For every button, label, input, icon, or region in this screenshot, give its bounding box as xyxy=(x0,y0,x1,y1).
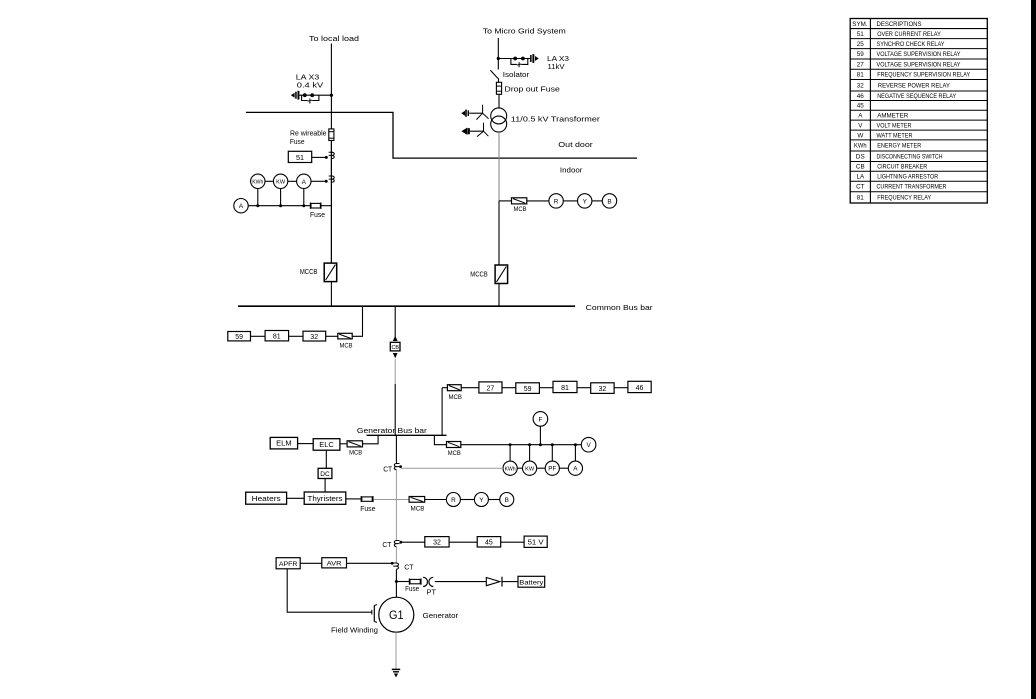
energy meter KWh (local) xyxy=(251,174,265,188)
svg-text:DC: DC xyxy=(320,471,330,478)
svg-text:Out door: Out door xyxy=(558,140,593,149)
svg-text:CT: CT xyxy=(382,542,392,549)
lightning arrestor LA2 (11 kV side) xyxy=(498,54,538,67)
svg-text:51 V: 51 V xyxy=(528,539,544,546)
svg-text:11/0.5 kV Transformer: 11/0.5 kV Transformer xyxy=(511,115,601,124)
legend row W watt meter xyxy=(857,132,913,139)
wire: APFR to field winding xyxy=(287,569,372,612)
wire: ELC to DC xyxy=(325,450,327,468)
svg-text:KWh: KWh xyxy=(252,180,263,186)
svg-text:F: F xyxy=(538,416,542,423)
fuse F2 (meter circuit) xyxy=(310,203,321,209)
voltmeter V xyxy=(581,437,596,452)
svg-text:51: 51 xyxy=(296,153,304,162)
svg-text:45: 45 xyxy=(857,103,865,110)
svg-text:32: 32 xyxy=(599,386,607,393)
node: CT1 lead dot xyxy=(325,156,328,159)
outdoor/indoor boundary line xyxy=(246,112,637,158)
svg-text:Heaters: Heaters xyxy=(252,496,282,503)
legend row CB circuit breaker xyxy=(856,164,928,171)
APFR box xyxy=(276,558,300,569)
wire: DC to Thyristers xyxy=(324,479,326,493)
node dot (KW tap) xyxy=(528,443,531,446)
wire: feeder between fuse and MCCB xyxy=(330,141,332,264)
legend row 25 synchro check relay xyxy=(857,41,945,48)
svg-text:NEGATIVE SEQUENCE RELAY: NEGATIVE SEQUENCE RELAY xyxy=(877,93,957,100)
wire: CT4 to relay 32 xyxy=(401,541,425,543)
MCB (metering) xyxy=(447,442,461,448)
svg-text:KWh: KWh xyxy=(505,466,516,472)
node: CT4 lead dot xyxy=(399,541,402,544)
lightning arrestor LA1 (0.4 kV side) xyxy=(291,91,332,104)
winding earth symbol (secondary) xyxy=(461,123,488,137)
svg-text:32: 32 xyxy=(857,83,865,90)
svg-text:CIRCUIT BREAKER: CIRCUIT BREAKER xyxy=(877,164,927,171)
svg-text:To local load: To local load xyxy=(309,34,359,43)
svg-text:Common Bus bar: Common Bus bar xyxy=(586,303,654,312)
svg-text:MCB: MCB xyxy=(448,394,462,401)
relay box 32 (gen row) xyxy=(591,383,614,394)
legend row 27 voltage supervision relay xyxy=(857,61,961,68)
svg-text:MCB: MCB xyxy=(448,450,462,457)
wire: CT4 to CT5 (gray) xyxy=(395,547,397,563)
ammeter A (local top) xyxy=(297,174,311,188)
MCCB (local feeder) xyxy=(324,263,337,282)
svg-text:45: 45 xyxy=(485,540,493,547)
wire: relay 32 to 45 xyxy=(449,541,477,543)
wire: KW to PF xyxy=(537,467,546,469)
wire: PF riser xyxy=(551,445,553,461)
wire: PF to A xyxy=(559,467,568,469)
node dot (PF tap) xyxy=(551,443,554,446)
common bus bar xyxy=(238,305,575,307)
wire: R to Y (field) xyxy=(460,499,474,501)
legend row A ammeter xyxy=(858,112,908,119)
Battery box xyxy=(518,576,545,587)
legend table frame xyxy=(850,19,987,204)
svg-text:81: 81 xyxy=(857,72,865,79)
svg-text:32: 32 xyxy=(433,540,441,547)
wire: fuse F3 to MCB (gray) xyxy=(374,499,410,501)
svg-text:PF: PF xyxy=(548,467,556,473)
wire: metering line to V xyxy=(461,444,582,446)
svg-text:Y: Y xyxy=(583,198,588,205)
wire: diode to battery xyxy=(502,581,518,583)
svg-text:KW: KW xyxy=(276,180,286,186)
PT coupling xyxy=(423,577,433,586)
svg-text:51: 51 xyxy=(857,31,865,38)
wire: KWh riser xyxy=(509,445,511,461)
wire: relay 81 to 32 xyxy=(577,387,591,389)
svg-text:R: R xyxy=(554,198,559,205)
relay box 81 (gen row) xyxy=(553,381,577,392)
svg-text:APFR: APFR xyxy=(279,561,298,568)
svg-text:Y: Y xyxy=(479,497,484,504)
svg-text:CT: CT xyxy=(404,564,414,571)
relay box 59 (bus row) xyxy=(228,332,251,341)
wire: lower meter row xyxy=(248,205,310,207)
svg-text:MCB: MCB xyxy=(411,505,426,512)
legend row 81 frequency relay xyxy=(857,195,932,202)
legend row 46 negative sequence relay xyxy=(857,93,957,100)
wattmeter KW (generator) xyxy=(523,461,537,475)
wire: fuse F2 to feeder xyxy=(321,205,332,207)
MCCB (micro grid feeder) xyxy=(495,265,508,284)
wire: CB to generator bus (upper gray) xyxy=(394,359,396,384)
node: LA1 junction on feeder xyxy=(330,94,333,97)
svg-text:MCCB: MCCB xyxy=(470,271,488,278)
wire: Heaters to Thyristers xyxy=(287,497,305,499)
svg-text:FREQUENCY SUPERVISION RELAY: FREQUENCY SUPERVISION RELAY xyxy=(877,72,971,79)
svg-text:CURRENT TRANSFORMER: CURRENT TRANSFORMER xyxy=(877,184,947,191)
svg-text:MCB: MCB xyxy=(514,206,528,213)
relay box 51 xyxy=(288,151,311,162)
svg-text:Field Winding: Field Winding xyxy=(331,625,378,634)
svg-text:DISCONNECTING SWITCH: DISCONNECTING SWITCH xyxy=(877,154,943,161)
legend row CT current transformer xyxy=(856,184,947,191)
svg-text:59: 59 xyxy=(857,51,865,58)
wire: MCB to relay 32 xyxy=(326,335,338,337)
relay box 46 xyxy=(628,381,651,392)
svg-text:To Micro Grid System: To Micro Grid System xyxy=(483,27,566,36)
legend row 51 over current relay xyxy=(857,31,942,38)
legend row KWh energy meter xyxy=(854,143,922,150)
rewireable fuse F1 xyxy=(329,129,334,141)
svg-text:W: W xyxy=(857,132,863,139)
wire: CT3 to CT4 (gray) xyxy=(395,470,397,541)
svg-text:G1: G1 xyxy=(389,610,404,622)
current transformer CT2 (meters) xyxy=(329,176,334,182)
svg-text:OVER CURRENT RELAY: OVER CURRENT RELAY xyxy=(877,31,941,38)
svg-text:Fuse: Fuse xyxy=(290,137,305,146)
wire: ELC to ELM xyxy=(298,443,314,445)
winding earth symbol (primary) xyxy=(461,105,488,120)
wire: relay 81 to 59 xyxy=(251,335,266,337)
wire: lamp Y to B xyxy=(592,200,602,202)
fuse F3 (field circuit) xyxy=(361,496,373,502)
wire: drop out fuse to transformer xyxy=(498,94,500,108)
svg-text:V: V xyxy=(586,442,591,449)
svg-text:59: 59 xyxy=(235,334,243,341)
Thyristers box xyxy=(304,492,346,504)
ELM box xyxy=(270,437,297,449)
svg-text:CB: CB xyxy=(391,345,399,351)
wire: bus drop to relay MCB row xyxy=(352,306,362,336)
legend row LA lightning arrestor xyxy=(856,174,938,181)
indicator lamp Y xyxy=(578,194,592,208)
wire: drop to MCB (27 row) xyxy=(442,387,447,389)
svg-text:B: B xyxy=(505,497,509,504)
wire: CT3 to KWh meters (gray) xyxy=(401,467,503,469)
svg-text:SYNCHRO CHECK RELAY: SYNCHRO CHECK RELAY xyxy=(877,41,946,48)
wire: KWh drop xyxy=(257,189,259,206)
MCB (relay row 1) xyxy=(338,333,352,339)
current transformer CT5 (AVR) xyxy=(393,563,398,569)
indicator lamp R xyxy=(549,194,563,208)
indicator lamp R (field) xyxy=(446,493,460,507)
wire: gen bus down to CT3 xyxy=(395,435,397,463)
svg-text:Generator Bus bar: Generator Bus bar xyxy=(357,426,428,435)
wire: MCB to lamp R2 xyxy=(425,499,447,501)
relay box 45 xyxy=(477,537,501,547)
wire: KWh to KW xyxy=(265,180,273,182)
isolator switch blade xyxy=(490,70,498,78)
indicator lamp B xyxy=(602,194,616,208)
relay box 32 (51V row) xyxy=(425,537,449,547)
wire: KW to A xyxy=(288,180,297,182)
svg-text:46: 46 xyxy=(636,385,644,392)
energy meter KWh (generator) xyxy=(503,461,517,475)
wire: relay 27 to 59 xyxy=(502,387,516,389)
ammeter A (generator) xyxy=(568,461,582,475)
MCB (indoor lamps) xyxy=(512,198,527,204)
svg-text:REVERSE POWER RELAY: REVERSE POWER RELAY xyxy=(878,83,951,90)
wattmeter KW (local) xyxy=(273,174,287,188)
current transformer CT3 (generator metering) xyxy=(394,464,399,470)
svg-text:AVR: AVR xyxy=(327,561,342,568)
wire: gen bus to ELC MCB xyxy=(363,435,379,444)
node dot below KW xyxy=(279,204,282,207)
indicator lamp Y (field) xyxy=(474,493,488,507)
wire: A drop xyxy=(303,189,305,206)
svg-text:81: 81 xyxy=(561,385,569,392)
relay box 59 (gen row) xyxy=(516,383,540,394)
legend row DS disconnecting switch xyxy=(856,154,943,161)
wire: transformer secondary down xyxy=(498,132,500,201)
wire: relay 45 to 51V xyxy=(501,541,524,543)
relay box 32 (bus row) xyxy=(303,331,326,341)
svg-text:A: A xyxy=(573,466,578,473)
wire: PT to diode xyxy=(435,581,487,583)
svg-text:Fuse: Fuse xyxy=(310,210,325,219)
svg-text:Isolator: Isolator xyxy=(503,70,530,79)
svg-text:R: R xyxy=(451,497,456,504)
svg-text:LIGHTNING ARRESTOR: LIGHTNING ARRESTOR xyxy=(877,174,938,181)
wire: MCB to relay 27 xyxy=(461,387,479,389)
ammeter A (local feeder) xyxy=(234,199,248,213)
svg-text:CB: CB xyxy=(856,164,865,171)
svg-text:59: 59 xyxy=(524,386,532,393)
relay box 51 V xyxy=(524,536,547,547)
node: CT5 lead dot xyxy=(391,562,394,565)
wire: KWh to KW xyxy=(517,467,522,469)
wire: MCCB to common bus xyxy=(330,282,332,307)
wire: bus to circuit breaker xyxy=(394,306,396,341)
wire: local load feeder vertical xyxy=(330,44,332,264)
transformer T1 11/0.5 kV xyxy=(491,108,507,132)
svg-text:81: 81 xyxy=(273,334,281,341)
svg-text:0.4 kV: 0.4 kV xyxy=(297,81,324,90)
indicator lamp B (field) xyxy=(500,493,514,507)
node: battery tap xyxy=(395,580,398,583)
svg-text:LA: LA xyxy=(856,174,865,181)
svg-text:Fuse: Fuse xyxy=(360,504,375,513)
svg-text:SYM.: SYM. xyxy=(852,21,867,28)
generator bus bar xyxy=(367,434,447,436)
svg-text:DS: DS xyxy=(856,154,865,161)
DC box xyxy=(318,468,332,478)
wire: gen bus to metering MCB xyxy=(434,435,446,444)
svg-text:AMMETER: AMMETER xyxy=(877,112,908,119)
diode (charger) xyxy=(486,577,502,587)
field brush terminal xyxy=(372,605,377,623)
svg-text:B: B xyxy=(607,198,611,205)
svg-text:KW: KW xyxy=(525,466,535,472)
svg-text:27: 27 xyxy=(857,61,865,68)
wire: A riser xyxy=(574,445,576,461)
svg-text:Generator: Generator xyxy=(423,611,459,620)
legend row 59 voltage supervision relay xyxy=(857,51,961,58)
svg-text:MCCB: MCCB xyxy=(300,269,318,276)
svg-text:25: 25 xyxy=(857,41,865,48)
wire: battery branch xyxy=(396,581,409,583)
wire: relay 32 to 46 xyxy=(614,387,628,389)
wire: relay 59 to 81 xyxy=(539,387,553,389)
svg-text:A: A xyxy=(239,203,244,210)
Heaters box xyxy=(246,492,287,504)
wire: 27-row MCB drop to generator bus xyxy=(441,388,443,436)
wire: AVR to APFR xyxy=(300,562,322,564)
legend row 81 frequency supervision relay xyxy=(857,72,971,79)
svg-text:Battery: Battery xyxy=(519,579,544,586)
draw-out circuit breaker CB xyxy=(390,336,400,358)
drop out fuse xyxy=(496,82,501,94)
current transformer CT1 (51 relay) xyxy=(329,152,334,158)
svg-text:81: 81 xyxy=(857,195,865,202)
MCB (relay row 2) xyxy=(447,385,461,391)
svg-text:Drop out Fuse: Drop out Fuse xyxy=(504,84,559,93)
wire: lamp R to Y xyxy=(563,200,577,202)
relay box 81 (bus row) xyxy=(265,331,289,341)
current transformer CT4 (51V row) xyxy=(394,541,399,547)
svg-text:32: 32 xyxy=(310,334,318,341)
wire: CT5 to battery tap xyxy=(395,570,397,598)
wire: relay 32 to 81 xyxy=(289,335,303,337)
ELC box xyxy=(313,439,340,451)
svg-text:FREQUENCY RELAY: FREQUENCY RELAY xyxy=(877,195,932,202)
svg-text:11kV: 11kV xyxy=(548,62,565,71)
node dot (A tap) xyxy=(574,443,577,446)
power factor meter PF xyxy=(545,461,559,475)
wire: KW drop xyxy=(280,189,282,206)
svg-text:VOLTAGE SUPERVISION RELAY: VOLTAGE SUPERVISION RELAY xyxy=(877,51,962,58)
svg-text:WATT METER: WATT METER xyxy=(877,132,913,139)
svg-text:46: 46 xyxy=(857,93,865,100)
svg-text:ELM: ELM xyxy=(276,441,292,448)
fuse F4 (battery) xyxy=(409,579,421,585)
wire: F drop xyxy=(539,426,541,445)
right edge bar xyxy=(1031,0,1036,699)
node dot below A xyxy=(302,204,305,207)
svg-text:DESCRIPTIONS: DESCRIPTIONS xyxy=(877,21,922,28)
node dot below KWh xyxy=(256,204,259,207)
node dot (KWh tap) xyxy=(509,443,512,446)
wire: CT5 to AVR xyxy=(347,562,393,564)
svg-text:MCB: MCB xyxy=(349,450,363,457)
legend header row xyxy=(852,21,921,28)
generator G1 xyxy=(379,597,414,632)
wire: CB to generator bus (lower) xyxy=(394,384,396,435)
svg-text:CT: CT xyxy=(383,467,393,474)
svg-text:A: A xyxy=(302,179,307,186)
svg-text:KWh: KWh xyxy=(854,143,867,150)
node dot (F tap) xyxy=(539,443,542,446)
svg-text:CT: CT xyxy=(856,184,865,191)
wire: G1 to ground (gray) xyxy=(395,632,397,669)
wire: feeder to MCCB2 xyxy=(498,201,500,265)
wire: A to CT2 xyxy=(311,180,326,182)
wire: branch to indoor MCB xyxy=(499,200,512,202)
svg-text:MCB: MCB xyxy=(340,342,354,349)
svg-text:VOLT METER: VOLT METER xyxy=(877,122,912,129)
wire: isolator to drop out fuse xyxy=(498,78,500,82)
wire: Y to B (field) xyxy=(488,499,499,501)
MCB (field lamps) xyxy=(409,497,425,503)
legend row V volt meter xyxy=(858,122,912,129)
frequency meter F xyxy=(533,412,548,427)
relay box 27 xyxy=(479,382,502,393)
svg-text:VOLTAGE SUPERVISION RELAY: VOLTAGE SUPERVISION RELAY xyxy=(877,61,962,68)
svg-text:PT: PT xyxy=(427,590,437,597)
wire: KW riser xyxy=(529,445,531,461)
wire: MCCB2 to common bus xyxy=(498,284,500,307)
wire: Thyristers to fuse F3 xyxy=(346,498,361,500)
MCB (ELC) xyxy=(347,441,362,447)
svg-text:ENERGY METER: ENERGY METER xyxy=(877,143,921,150)
svg-text:27: 27 xyxy=(487,386,495,393)
wire: relay 51 to CT1 xyxy=(312,156,327,158)
svg-text:Fuse: Fuse xyxy=(405,586,419,593)
svg-text:ELC: ELC xyxy=(319,442,334,449)
wire: MCB to ELC xyxy=(340,443,347,445)
node: CT2 lead dot xyxy=(325,180,328,183)
ground xyxy=(392,669,400,677)
svg-text:Indoor: Indoor xyxy=(560,166,583,175)
node: LA2 junction xyxy=(497,57,500,60)
wire: micro grid feeder top xyxy=(497,38,499,70)
wire: MCB to lamp R xyxy=(527,200,549,202)
svg-text:Thyristers: Thyristers xyxy=(308,496,344,503)
AVR box xyxy=(322,558,347,568)
legend row 32 reverse power relay xyxy=(857,83,951,90)
node: CT3 lead dot xyxy=(399,465,402,468)
